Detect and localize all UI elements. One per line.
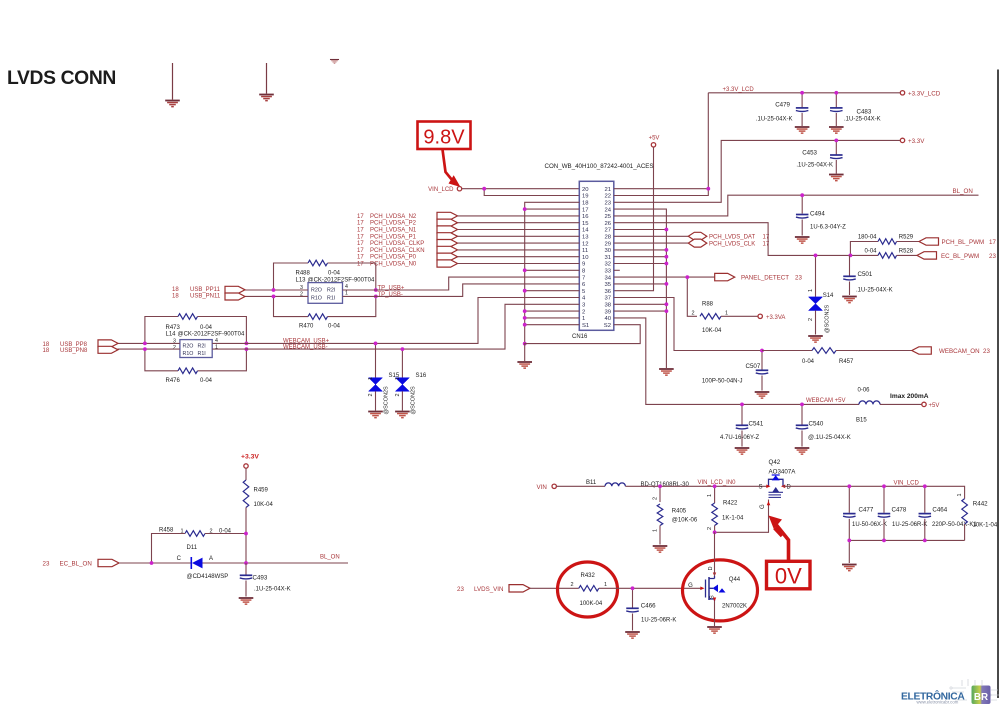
- svg-text:1: 1: [653, 529, 659, 532]
- svg-text:0-04: 0-04: [200, 325, 213, 331]
- svg-text:14: 14: [582, 228, 589, 234]
- svg-text:.1U-25-04X-K: .1U-25-04X-K: [756, 116, 793, 122]
- svg-text:EC_BL_ON: EC_BL_ON: [60, 561, 92, 568]
- schematic frame edge (right): [997, 70, 999, 699]
- ground S16: [395, 411, 410, 413]
- svg-text:0-04: 0-04: [328, 324, 341, 330]
- junctions on left ground bus: [523, 207, 527, 211]
- svg-text:BD-QT1608RL-30: BD-QT1608RL-30: [641, 482, 690, 488]
- svg-text:23: 23: [989, 253, 996, 260]
- svg-text:2: 2: [808, 318, 814, 321]
- svg-text:@.1U-25-04X-K: @.1U-25-04X-K: [808, 435, 851, 441]
- svg-text:C453: C453: [802, 149, 817, 156]
- svg-text:@SCON2S: @SCON2S: [825, 304, 831, 333]
- svg-text:17: 17: [357, 234, 364, 240]
- resistor R488: [308, 260, 328, 266]
- junctions right ground bus: [665, 228, 669, 232]
- svg-text:12: 12: [582, 241, 589, 247]
- svg-text:CON_WB_40H100_87242-4001_ACES: CON_WB_40H100_87242-4001_ACES: [545, 163, 654, 170]
- ground C494: [795, 236, 810, 238]
- svg-text:2: 2: [395, 393, 401, 396]
- wire WEBCAM_USB+ to pin 4: [212, 298, 579, 344]
- svg-text:CN16: CN16: [572, 334, 588, 340]
- svg-text:+3.3V: +3.3V: [908, 138, 925, 145]
- svg-text:PCH_LVDSA_N2: PCH_LVDSA_N2: [370, 214, 417, 220]
- svg-text:R459: R459: [254, 488, 269, 494]
- svg-text:18: 18: [582, 201, 589, 207]
- svg-text:2: 2: [691, 310, 694, 316]
- no-connect stub pin 33: [614, 269, 620, 271]
- wire right ground bus (pins 24,27,30,31,32,35,38,39): [614, 209, 667, 368]
- svg-text:18: 18: [172, 294, 179, 300]
- svg-text:R473: R473: [166, 325, 181, 331]
- svg-text:R476: R476: [166, 378, 181, 384]
- svg-text:4: 4: [345, 284, 348, 290]
- wire R458 right to node: [205, 533, 246, 535]
- svg-text:23: 23: [457, 586, 464, 593]
- capacitor C501: [849, 255, 851, 275]
- svg-text:1U-25-06R-K: 1U-25-06R-K: [641, 618, 676, 624]
- svg-text:LVDS_VIN: LVDS_VIN: [474, 586, 503, 593]
- wire WEBCAM_USB- to pin 3: [212, 304, 579, 349]
- svg-text:33: 33: [604, 269, 611, 275]
- svg-text:1U-25-06R-K: 1U-25-06R-K: [892, 522, 927, 528]
- resistor R459: [243, 480, 249, 508]
- wire R432 to Q44 gate: [599, 587, 701, 589]
- wire Q44 drain up to R422 node: [714, 532, 716, 576]
- ground R405: [653, 545, 668, 547]
- svg-text:PCH_LVDS_CLK: PCH_LVDS_CLK: [709, 241, 755, 247]
- svg-text:2: 2: [368, 393, 374, 396]
- svg-text:28: 28: [604, 235, 611, 241]
- svg-text:10K-04: 10K-04: [254, 502, 274, 508]
- svg-text:BL_ON: BL_ON: [320, 555, 340, 561]
- svg-text:S14: S14: [823, 293, 834, 299]
- svg-text:R422: R422: [723, 501, 738, 507]
- svg-text:C494: C494: [810, 211, 825, 218]
- wire TP_USB- choke to pin 6: [343, 284, 580, 297]
- svg-text:17: 17: [582, 207, 589, 213]
- svg-text:1: 1: [395, 377, 401, 380]
- wire L13 pin3: [245, 289, 308, 291]
- svg-text:25: 25: [604, 214, 611, 220]
- svg-text:PCH_BL_PWM: PCH_BL_PWM: [942, 239, 985, 246]
- svg-text:L14: L14: [166, 331, 177, 337]
- svg-text:17: 17: [357, 221, 364, 227]
- ground C540: [795, 447, 810, 449]
- terminal +3.3V: [900, 138, 904, 142]
- resistor R457: [812, 348, 836, 354]
- svg-text:BR: BR: [974, 692, 988, 703]
- svg-text:C541: C541: [749, 421, 764, 428]
- svg-text:2: 2: [707, 527, 713, 530]
- wire +3.3V to R459: [245, 468, 247, 480]
- red circle around Q44: [683, 560, 758, 621]
- svg-text:D: D: [787, 485, 792, 491]
- svg-text:S2: S2: [604, 323, 611, 329]
- svg-text:16: 16: [582, 214, 589, 220]
- svg-text:1K-1-04: 1K-1-04: [722, 516, 744, 522]
- wire L14 pin3: [118, 342, 180, 344]
- svg-text:PCH_LVDSA_P2: PCH_LVDSA_P2: [370, 221, 417, 227]
- wire pin 26 to EC_BL_PWM net: [614, 223, 878, 256]
- svg-text:+3.3V_LCD: +3.3V_LCD: [908, 90, 941, 97]
- svg-text:@SCON2S: @SCON2S: [384, 386, 390, 415]
- svg-text:1U-6.3-04Y-Z: 1U-6.3-04Y-Z: [810, 225, 846, 231]
- TVS diode S16: [401, 349, 403, 377]
- svg-text:C501: C501: [858, 271, 873, 278]
- svg-text:24: 24: [604, 207, 611, 213]
- wire R459 to node: [245, 508, 247, 564]
- svg-text:USB_PN11: USB_PN11: [190, 294, 221, 300]
- svg-text:R488: R488: [296, 271, 311, 277]
- svg-text:C493: C493: [253, 575, 268, 582]
- svg-text:2: 2: [582, 309, 585, 315]
- svg-text:Imax 200mA: Imax 200mA: [890, 393, 929, 400]
- capacitor C464: [924, 486, 926, 513]
- svg-text:@CK-2012F2SF-900T04: @CK-2012F2SF-900T04: [178, 331, 245, 337]
- resistor R422: [714, 486, 716, 503]
- svg-text:+3.3V: +3.3V: [241, 454, 259, 461]
- junctions choke L13: [272, 288, 276, 292]
- wire R458 left to EC_BL_ON net: [152, 534, 186, 564]
- svg-text:17: 17: [989, 239, 996, 246]
- svg-text:PCH_LVDSA_P1: PCH_LVDSA_P1: [370, 234, 417, 240]
- wire R422 to Q42 gate: [715, 500, 769, 533]
- svg-text:VIN_LCD: VIN_LCD: [894, 481, 920, 487]
- svg-text:.1U-25-04X-K: .1U-25-04X-K: [796, 163, 833, 169]
- terminal +3.3V_LCD: [900, 91, 904, 95]
- svg-text:R432: R432: [581, 573, 596, 579]
- capacitor C493: [245, 563, 247, 575]
- svg-text:100P-50-04N-J: 100P-50-04N-J: [702, 379, 743, 385]
- svg-text:10K-04: 10K-04: [702, 328, 722, 334]
- wire Q42 drain to VIN_LCD rail: [783, 486, 965, 498]
- wire B15 to +5V: [880, 403, 922, 405]
- svg-text:.1U-25-04X-K: .1U-25-04X-K: [254, 587, 291, 593]
- ground (right bus): [659, 368, 674, 370]
- svg-text:G: G: [760, 504, 766, 509]
- svg-text:26: 26: [604, 221, 611, 227]
- svg-text:2N7002K: 2N7002K: [722, 604, 747, 610]
- ground C466: [625, 631, 640, 633]
- svg-text:18: 18: [172, 287, 179, 293]
- wire +5V to pin 36: [614, 147, 654, 291]
- svg-text:2: 2: [570, 582, 573, 588]
- svg-text:R528: R528: [899, 248, 914, 254]
- svg-text:18: 18: [43, 348, 50, 354]
- ground Q44: [707, 626, 722, 628]
- wire R528 to port: [897, 254, 917, 256]
- choke L14 outer loop wires: [145, 317, 178, 344]
- svg-text:10K-1-04: 10K-1-04: [973, 523, 998, 529]
- port WEBCAM_ON (sheet 23): [912, 347, 932, 354]
- svg-text:R1I: R1I: [198, 351, 206, 357]
- svg-text:17: 17: [357, 255, 364, 261]
- annotation box 9.8V: [418, 122, 471, 150]
- ground S15: [368, 411, 383, 413]
- svg-text:USB_PP8: USB_PP8: [60, 342, 88, 348]
- wire PCH_LVDSA_N1 to pin 14: [458, 229, 580, 231]
- wire pin34 junction down to R88: [687, 277, 697, 316]
- wire PCH_LVDSA_CLKN to pin 11: [458, 249, 580, 251]
- svg-text:38: 38: [604, 303, 611, 309]
- svg-text:R529: R529: [899, 234, 914, 240]
- svg-text:1: 1: [368, 377, 374, 380]
- svg-text:17: 17: [763, 235, 770, 241]
- svg-text:C477: C477: [859, 507, 874, 514]
- wire pin 34 to PANEL_DETECT: [614, 276, 715, 278]
- svg-text:+3.3V_LCD: +3.3V_LCD: [723, 87, 755, 93]
- svg-text:R1O: R1O: [183, 351, 194, 357]
- svg-text:0V: 0V: [775, 564, 802, 589]
- svg-text:R2O: R2O: [183, 343, 194, 349]
- wire pin 37 to WEBCAM_ON: [614, 298, 762, 351]
- logo faint circuit traces: [950, 679, 999, 700]
- svg-text:17: 17: [357, 241, 364, 247]
- svg-text:17: 17: [763, 241, 770, 247]
- svg-text:17: 17: [357, 214, 364, 220]
- svg-text:R2I: R2I: [327, 287, 335, 293]
- svg-text:PCH_LVDSA_CLKP: PCH_LVDSA_CLKP: [370, 241, 424, 247]
- inductor B15: [859, 401, 880, 404]
- svg-text:R470: R470: [299, 324, 314, 330]
- capacitor C540: [801, 404, 803, 424]
- svg-text:34: 34: [604, 275, 611, 281]
- svg-text:10: 10: [582, 255, 589, 261]
- junctions choke L14: [143, 342, 147, 346]
- svg-text:23: 23: [604, 201, 611, 207]
- svg-text:PCH_LVDSA_CLKN: PCH_LVDSA_CLKN: [370, 248, 425, 254]
- svg-text:LVDS CONN: LVDS CONN: [7, 68, 116, 89]
- inductor B11: [605, 483, 625, 486]
- svg-text:.1U-25-04X-K: .1U-25-04X-K: [844, 116, 881, 122]
- svg-text:S: S: [758, 485, 762, 491]
- svg-text:BL_ON: BL_ON: [953, 188, 973, 195]
- svg-text:+3.3VA: +3.3VA: [766, 315, 785, 321]
- svg-text:23: 23: [43, 561, 50, 568]
- capacitor C466: [632, 588, 634, 607]
- wire Q44 source to ground: [714, 601, 716, 626]
- svg-text:39: 39: [604, 309, 611, 315]
- wire TP_USB+ choke to pin 7: [343, 277, 580, 290]
- svg-text:37: 37: [604, 296, 611, 302]
- svg-text:20: 20: [582, 187, 589, 193]
- svg-text:D: D: [708, 567, 714, 571]
- TVS diode S15: [375, 343, 377, 377]
- svg-text:WEBCAM_ON: WEBCAM_ON: [939, 348, 980, 355]
- svg-text:PANEL_DETECT: PANEL_DETECT: [741, 274, 789, 281]
- wire left ground bus (pins 18,17,8,5,2,1,S1): [525, 202, 580, 343]
- svg-text:2: 2: [173, 345, 176, 351]
- svg-text:+5V: +5V: [649, 136, 660, 142]
- svg-text:S1: S1: [582, 323, 589, 329]
- svg-text:+5V: +5V: [929, 403, 940, 409]
- wire EC_BL_ON to D11 cathode: [119, 562, 191, 564]
- ground C507: [755, 391, 770, 393]
- svg-text:27: 27: [604, 228, 611, 234]
- wire +3.3V_LCD rail from pins 21,22: [614, 93, 709, 196]
- svg-text:.1U-25-04X-K: .1U-25-04X-K: [856, 288, 893, 294]
- wire VIN to B11: [557, 485, 606, 487]
- wire VIN_LCD to pin 20: [462, 188, 580, 190]
- svg-text:1: 1: [707, 494, 713, 497]
- resistor R405: [659, 486, 661, 502]
- ground C493: [239, 597, 254, 599]
- ground C541: [735, 447, 750, 449]
- connector CN16 box: [579, 181, 614, 330]
- wire to ground under C477: [848, 540, 850, 563]
- red circle around R432: [558, 562, 618, 617]
- svg-text:C: C: [177, 556, 182, 562]
- svg-text:R2I: R2I: [198, 343, 206, 349]
- svg-text:EC_BL_PWM: EC_BL_PWM: [941, 253, 979, 260]
- svg-text:C483: C483: [857, 109, 872, 116]
- svg-text:VIN_LCD: VIN_LCD: [428, 187, 454, 193]
- ground C453: [829, 174, 844, 176]
- annotation box 0V: [767, 561, 811, 589]
- ground C479: [795, 126, 810, 128]
- svg-text:35: 35: [604, 282, 611, 288]
- svg-text:15: 15: [582, 221, 589, 227]
- svg-text:@SCON2S: @SCON2S: [411, 386, 417, 415]
- terminal +5V (right): [922, 402, 926, 406]
- svg-text:17: 17: [357, 228, 364, 234]
- wire PCH_LVDSA_P1 to pin 13: [458, 235, 580, 237]
- svg-text:32: 32: [604, 262, 611, 268]
- svg-text:B11: B11: [586, 480, 597, 486]
- svg-text:L13: L13: [296, 278, 307, 284]
- svg-text:R88: R88: [702, 302, 714, 308]
- capacitor C541: [741, 404, 743, 424]
- svg-text:@10K-06: @10K-06: [672, 518, 698, 524]
- svg-text:A: A: [209, 556, 213, 562]
- capacitor C483: [835, 93, 837, 108]
- svg-text:11: 11: [582, 248, 588, 254]
- capacitor C479: [801, 93, 803, 108]
- svg-text:1: 1: [345, 291, 348, 297]
- svg-text:0-04: 0-04: [200, 378, 213, 384]
- port PCH_LVDS_DAT (sheet 17): [614, 235, 689, 237]
- svg-text:18: 18: [43, 342, 50, 348]
- capacitor C477: [848, 486, 850, 513]
- svg-text:Q44: Q44: [729, 577, 741, 583]
- svg-text:2: 2: [653, 497, 659, 500]
- annotation arrow 0V to Q42 gate: [774, 522, 789, 561]
- svg-text:22: 22: [604, 194, 611, 200]
- wire PCH_LVDSA_P2 to pin 15: [458, 222, 580, 224]
- choke L13 outer loop wires: [274, 263, 309, 290]
- capacitor C478: [883, 486, 885, 513]
- svg-text:1U-50-06X-K: 1U-50-06X-K: [852, 522, 887, 528]
- ground S14: [808, 335, 823, 337]
- svg-text:9: 9: [582, 262, 585, 268]
- terminal +3.3VA: [758, 314, 762, 318]
- wire S2 loop to ground bus: [525, 325, 641, 361]
- junction VIN_LCD: [482, 187, 486, 191]
- svg-text:1: 1: [725, 310, 728, 316]
- resistor R470: [308, 314, 328, 320]
- svg-text:C479: C479: [775, 102, 790, 109]
- svg-text:VIN_LCD_IN0: VIN_LCD_IN0: [698, 480, 737, 486]
- svg-text:1: 1: [808, 289, 814, 292]
- svg-text:R1O: R1O: [311, 295, 322, 301]
- ground (top-left 1): [172, 63, 174, 100]
- svg-text:220P-50-04X-K1: 220P-50-04X-K1: [932, 522, 977, 528]
- svg-text:R405: R405: [672, 509, 687, 515]
- svg-text:1: 1: [604, 582, 607, 588]
- capacitor C494: [801, 195, 803, 213]
- wire L14 pin2: [118, 348, 180, 350]
- wire bottom rail of VIN_LCD caps: [849, 539, 964, 541]
- svg-text:13: 13: [582, 235, 589, 241]
- svg-text:R458: R458: [159, 528, 174, 534]
- wire branch to pin 19: [484, 189, 579, 196]
- wire BL_ON from pin 25: [614, 195, 979, 216]
- svg-text:40: 40: [604, 316, 611, 322]
- svg-text:WEBCAM +5V: WEBCAM +5V: [806, 398, 846, 404]
- port PCH_BL_PWM (sheet 17): [919, 238, 939, 245]
- wire PCH_LVDSA_N2 to pin 16: [458, 215, 580, 217]
- svg-text:C478: C478: [892, 507, 907, 514]
- svg-text:R2O: R2O: [311, 287, 322, 293]
- svg-text:0-04: 0-04: [864, 248, 877, 254]
- svg-text:C464: C464: [932, 507, 947, 514]
- ground (top small): [330, 59, 339, 61]
- svg-text:9.8V: 9.8V: [423, 127, 465, 149]
- resistor R473: [178, 314, 198, 320]
- svg-text:R457: R457: [839, 359, 854, 365]
- svg-text:7: 7: [582, 275, 585, 281]
- port PCH_LVDS_CLK (sheet 17): [614, 242, 689, 244]
- svg-text:180-04: 180-04: [858, 234, 877, 240]
- svg-text:1: 1: [957, 493, 963, 496]
- wire pin 40 to WEBCAM +5V rail: [614, 318, 859, 405]
- wire R457 to port: [836, 350, 912, 352]
- svg-text:0-04: 0-04: [328, 271, 341, 277]
- svg-text:C466: C466: [641, 603, 656, 610]
- wire C507 junction to R457: [762, 350, 812, 352]
- svg-text:B15: B15: [856, 418, 867, 424]
- svg-text:VIN: VIN: [537, 484, 547, 491]
- resistor R476: [178, 368, 198, 374]
- port PANEL_DETECT (sheet 23): [715, 273, 735, 280]
- svg-text:23: 23: [983, 348, 990, 355]
- svg-text:30: 30: [604, 248, 611, 254]
- svg-text:36: 36: [604, 289, 611, 295]
- svg-text:www.eletronicabr.com: www.eletronicabr.com: [917, 700, 959, 705]
- wire B11 to Q42 source: [625, 485, 766, 487]
- svg-text:0-04: 0-04: [802, 359, 815, 365]
- svg-text:R442: R442: [973, 501, 988, 508]
- svg-text:1: 1: [582, 316, 585, 322]
- wire +3.3V rail from pin 23: [614, 140, 901, 202]
- wire PCH_LVDSA_P0 to pin 10: [458, 256, 580, 258]
- svg-text:19: 19: [582, 194, 589, 200]
- ground VIN_LCD caps: [842, 564, 857, 566]
- ground C501: [842, 296, 857, 298]
- TVS diode S14: [815, 255, 817, 296]
- wire PCH_LVDSA_N0 to pin 9: [458, 263, 580, 265]
- ground (left bus): [517, 361, 532, 363]
- svg-text:USB_PN8: USB_PN8: [60, 348, 88, 354]
- svg-text:Q42: Q42: [769, 459, 781, 466]
- svg-text:USB_PP11: USB_PP11: [190, 287, 221, 293]
- svg-text:@CD4148WSP: @CD4148WSP: [187, 574, 229, 580]
- svg-text:17: 17: [357, 262, 364, 268]
- svg-text:G: G: [688, 583, 693, 589]
- svg-text:23: 23: [795, 274, 802, 281]
